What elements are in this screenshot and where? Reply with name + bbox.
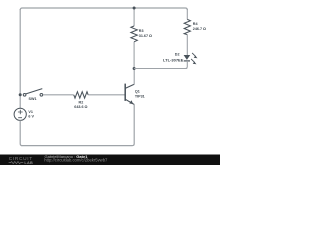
svg-text:SW1: SW1 [29,97,37,101]
LED D2 [184,55,191,60]
switch SW1 [23,89,43,97]
resistor R2 [74,92,88,98]
svg-text:TIP31: TIP31 [135,95,145,99]
svg-text:D2: D2 [175,52,180,56]
svg-text:Q1: Q1 [135,90,140,94]
wire LED return [134,68,187,70]
node top rail R3 junction [133,7,136,10]
wire LED to return [185,61,187,69]
svg-text:http://circuitlab.com/c/2bekr5: http://circuitlab.com/c/2bekr5vwb7 [44,157,108,162]
node switch-branch junction [19,93,22,96]
svg-text:V1: V1 [28,110,33,114]
top rail wire [20,8,187,10]
wire left branch [19,9,21,108]
LED emission arrows [191,53,197,64]
transistor Q1 [125,84,134,105]
svg-text:R2: R2 [79,100,84,104]
wire R2 to base [88,94,124,96]
wire switch to R2 [43,94,74,96]
svg-text:LAB: LAB [24,161,33,165]
logo zigzag [9,162,24,164]
svg-text:LTL-307EE: LTL-307EE [163,58,184,63]
svg-text:6 V: 6 V [28,115,34,119]
svg-text:R3: R3 [139,29,144,33]
bottom rail wire [21,104,134,145]
svg-text:31.67 Ω: 31.67 Ω [139,34,152,38]
banner [0,155,220,166]
wire R4 to LED [186,35,188,55]
V1 minus sign [18,117,22,119]
wire collector riser [133,69,135,85]
svg-text:643.6 Ω: 643.6 Ω [74,105,87,109]
transistor emitter arrow [129,100,133,104]
resistor R4 [184,19,190,34]
wire R4 branch top [186,9,188,19]
voltage source V1 [14,108,26,120]
svg-text:246.7 Ω: 246.7 Ω [193,27,206,31]
wire V1 to bottom rail [20,120,22,145]
wire R3 branch [133,8,135,69]
svg-text:R4: R4 [193,22,199,26]
node collector junction [133,67,136,70]
V1 plus sign [18,110,23,114]
resistor R3 [131,26,137,42]
